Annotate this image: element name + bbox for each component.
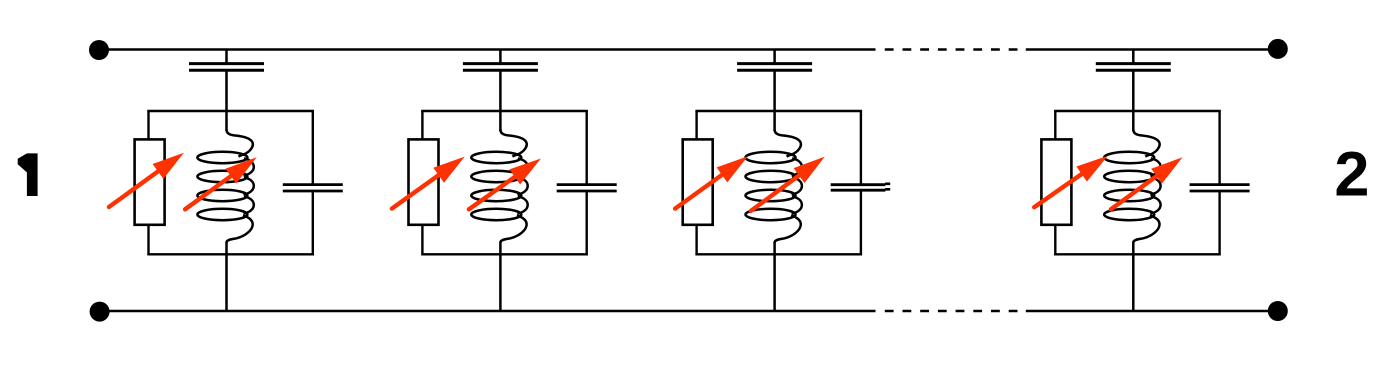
top rail solid left segment [99, 48, 876, 51]
variable resistor R4 body [1041, 139, 1071, 224]
wire from tank circuit 4 to bottom rail [1132, 254, 1135, 311]
variable resistor R3 adjustment arrow [675, 168, 732, 209]
parallel capacitor C3b offset plate end stubs [885, 183, 890, 186]
variable inductor L4 coil [1104, 130, 1160, 243]
variable resistor R2 body [409, 139, 439, 224]
tank circuit 3 box left wire [695, 111, 697, 140]
variable inductor L4 coil lead top [1132, 111, 1135, 131]
series capacitor C4a plates [1096, 62, 1171, 65]
terminal dot port 1 bottom [90, 302, 110, 322]
tank circuit 4 box right wire [1218, 111, 1220, 185]
series capacitor C3a plates [737, 62, 812, 65]
variable inductor L1 adjustment arrow [185, 169, 240, 209]
tank circuit 1 box right wire [312, 111, 314, 185]
series capacitor C1a plates [189, 62, 264, 65]
tank circuit 4 box bottom wire [1054, 253, 1221, 255]
series capacitor C2a plates [463, 62, 538, 65]
variable resistor R4 adjustment arrow [1034, 167, 1091, 207]
top rail solid right segment [1026, 48, 1278, 51]
tank circuit 2 box bottom wire [421, 253, 588, 255]
variable inductor L4 adjustment arrow [1111, 169, 1166, 209]
parallel capacitor C2b plates [557, 183, 617, 186]
variable resistor R1 adjustment arrow [109, 164, 168, 207]
wire from C1a to tank circuit 1 [225, 70, 228, 111]
terminal dot port 2 top [1268, 39, 1288, 59]
wire from tank circuit 3 to bottom rail [773, 254, 776, 311]
tank circuit 1 box bottom wire [147, 253, 314, 255]
variable resistor R1 body [135, 139, 165, 224]
parallel capacitor C4b plates [1190, 183, 1250, 186]
variable inductor L2 coil lead bottom [499, 242, 502, 255]
tank circuit 1 box left wire [147, 111, 149, 140]
series capacitor C1a top stub wire [225, 50, 228, 64]
tank circuit 3 box bottom wire [695, 253, 862, 255]
svg-text:2: 2 [1334, 140, 1369, 210]
wire from tank circuit 1 to bottom rail [225, 254, 228, 311]
variable inductor L3 adjustment arrow [751, 168, 809, 211]
tank circuit 3 box right wire [860, 111, 862, 185]
tank circuit 2 box right wire [586, 111, 588, 185]
variable inductor L2 coil lead top [499, 111, 502, 131]
bottom rail solid right segment [1026, 310, 1278, 313]
tank circuit 3 box top wire [695, 110, 862, 112]
tank circuit 4 box top wire [1054, 110, 1221, 112]
variable inductor L3 coil [746, 130, 802, 243]
top rail dashed segment [885, 48, 1026, 51]
variable inductor L3 coil lead top [773, 111, 776, 131]
series capacitor C4a top stub wire [1132, 50, 1135, 64]
tank circuit 4 box left wire [1054, 111, 1056, 140]
variable inductor L1 coil [197, 130, 253, 243]
terminal dot port 2 bottom [1268, 301, 1288, 321]
wire from tank circuit 2 to bottom rail [499, 254, 502, 311]
wire from C2a to tank circuit 2 [499, 70, 502, 111]
variable inductor L1 coil lead top [225, 111, 228, 131]
parallel capacitor C3b plates [831, 183, 886, 186]
tank circuit 2 box left wire [421, 111, 423, 140]
bottom rail solid left segment [100, 310, 876, 313]
terminal dot port 1 top [89, 40, 109, 60]
tank circuit 1 box top wire [147, 110, 314, 112]
variable inductor L2 coil [471, 130, 527, 243]
parallel capacitor C1b plates [283, 183, 343, 186]
bottom rail dashed segment [885, 310, 1026, 313]
variable inductor L4 coil lead bottom [1132, 242, 1135, 255]
series capacitor C2a top stub wire [499, 50, 502, 64]
variable resistor R2 adjustment arrow [392, 168, 449, 208]
variable inductor L1 coil lead bottom [225, 242, 228, 255]
variable resistor R3 body [683, 139, 713, 224]
wire from C4a to tank circuit 4 [1132, 70, 1135, 111]
variable inductor L2 adjustment arrow [469, 170, 525, 209]
wire from C3a to tank circuit 3 [773, 70, 776, 111]
series capacitor C3a top stub wire [773, 50, 776, 64]
port label 1 [18, 153, 38, 196]
tank circuit 2 box top wire [421, 110, 588, 112]
variable inductor L3 coil lead bottom [773, 242, 776, 255]
